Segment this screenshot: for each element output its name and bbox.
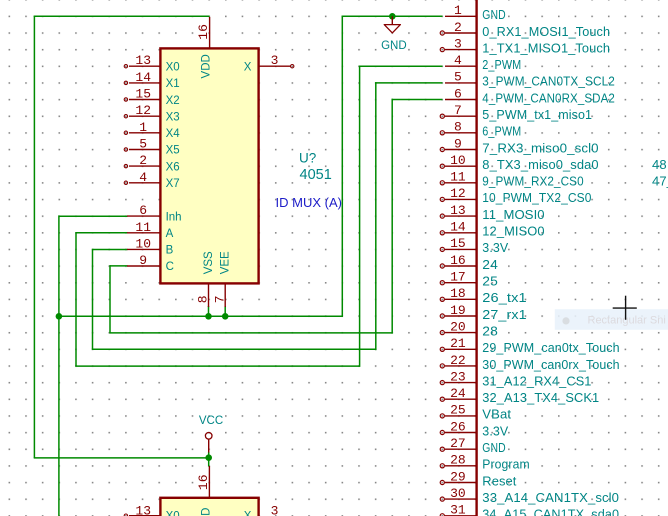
svg-text:15: 15	[450, 236, 466, 251]
svg-text:3: 3	[271, 503, 279, 516]
svg-text:28: 28	[450, 453, 466, 468]
connector pin 13 (11_MOSI0)	[440, 203, 545, 222]
svg-text:14: 14	[135, 70, 151, 85]
wire GND net: vertical continuing to bottom edge	[58, 316, 60, 516]
wire VCC net: left vertical	[33, 16, 35, 458]
svg-text:VEE: VEE	[220, 251, 232, 274]
text label ID MUX (A)	[276, 195, 342, 210]
pin 3 (X) of U? right side	[244, 53, 294, 74]
svg-text:29: 29	[450, 469, 466, 484]
connector pin 11 (9_PWM_RX2_CS0)	[440, 170, 584, 189]
svg-text:X1: X1	[166, 78, 180, 90]
connector pin 6 (4_PWM_CAN0RX_SDA2)	[445, 86, 615, 105]
svg-text:5_PWM_tx1_miso1: 5_PWM_tx1_miso1	[482, 107, 592, 122]
connector pin 21 (29_PWM_can0tx_Touch)	[440, 336, 619, 355]
pin 4 (X7) of U? left side	[124, 170, 179, 190]
svg-text:32_A13_TX4_SCK1: 32_A13_TX4_SCK1	[482, 390, 599, 405]
wire net A: vertical x=76	[75, 232, 77, 366]
svg-text:4051: 4051	[300, 167, 332, 183]
svg-text:ID MUX (A): ID MUX (A)	[276, 195, 342, 210]
IC body U? 4051 (B), partially visible at bottom	[160, 498, 258, 516]
svg-text:1_TX1_MISO1_Touch: 1_TX1_MISO1_Touch	[482, 40, 610, 55]
wire net B: horizontal y=349	[92, 348, 376, 350]
svg-text:33_A14_CAN1TX_scl0: 33_A14_CAN1TX_scl0	[482, 490, 619, 505]
connector pin 23 (31_A12_RX4_CS1)	[440, 369, 591, 388]
svg-text:11: 11	[135, 220, 151, 235]
svg-text:31: 31	[450, 503, 466, 516]
connector pin 2 (0_RX1_MOSI1_Touch)	[440, 20, 610, 39]
wire VCC net: short vertical junction to U? (B) pin 16	[208, 452, 210, 467]
svg-text:U?: U?	[299, 150, 316, 165]
svg-text:7: 7	[454, 103, 462, 118]
svg-text:29_PWM_can0tx_Touch: 29_PWM_can0tx_Touch	[482, 340, 619, 355]
connector pin 22 (30_PWM_can0rx_Touch)	[440, 353, 619, 372]
svg-text:X0: X0	[166, 510, 180, 516]
wire net B: horizontal to connector pin 5	[375, 82, 442, 84]
svg-text:26_tx1: 26_tx1	[482, 290, 526, 305]
wire net B: vertical x=92.5	[92, 249, 94, 349]
connector pin 12 (10_PWM_TX2_CS0)	[440, 186, 591, 205]
wire net A: horizontal to connector pin 4	[359, 65, 443, 67]
svg-text:11_MOSI0: 11_MOSI0	[482, 207, 544, 222]
svg-text:9: 9	[139, 253, 147, 268]
svg-text:12: 12	[450, 186, 466, 201]
pin 16 (VDD) of U? (B)	[196, 466, 213, 516]
connector pin 19 (27_rx1)	[440, 303, 527, 322]
svg-text:20: 20	[450, 319, 466, 334]
wire net C: from U? pin C to left vertical	[110, 265, 128, 267]
svg-text:6: 6	[139, 203, 147, 218]
connector pin 20 (28)	[440, 319, 498, 338]
svg-text:7: 7	[212, 295, 227, 303]
connector pin 29 (Reset)	[440, 469, 517, 488]
svg-text:31_A12_RX4_CS1: 31_A12_RX4_CS1	[482, 373, 591, 388]
svg-text:13: 13	[135, 504, 151, 516]
pin 10 (B) of U? left side	[127, 236, 174, 256]
pin 7 (VEE) of U? bottom side	[212, 251, 231, 307]
svg-text:3.3V: 3.3V	[482, 423, 508, 438]
svg-text:X7: X7	[166, 178, 180, 190]
svg-text:34_A15_CAN1TX_sda0: 34_A15_CAN1TX_sda0	[482, 507, 619, 516]
wire net A: from U? pin A to left vertical	[76, 232, 128, 234]
pin 3 (X) of U? (B)	[244, 503, 279, 516]
pin 12 (X3) of U? left side	[124, 103, 179, 123]
svg-text:12_MISO0: 12_MISO0	[482, 224, 544, 239]
svg-text:24: 24	[482, 257, 498, 272]
svg-text:Program: Program	[482, 457, 529, 472]
svg-text:9_PWM_RX2_CS0: 9_PWM_RX2_CS0	[482, 174, 583, 189]
connector pin 17 (25)	[440, 270, 498, 289]
svg-text:Inh: Inh	[166, 211, 182, 223]
svg-text:X3: X3	[166, 111, 180, 123]
svg-text:7_RX3_miso0_scl0: 7_RX3_miso0_scl0	[482, 140, 598, 155]
connector pin 14 (12_MISO0)	[440, 220, 545, 239]
crosshair cursor	[613, 296, 637, 320]
svg-text:VBat: VBat	[482, 407, 511, 422]
reference designator U?	[299, 150, 316, 165]
wire GND net: vertical from Inh row to bus	[58, 215, 60, 316]
wire GND net: from U? Inh pin to left vertical	[59, 215, 128, 217]
pin 14 (X1) of U? left side	[124, 70, 179, 90]
svg-text:Reset: Reset	[482, 473, 516, 488]
wire VCC net: bottom horizontal to VCC junction	[34, 457, 209, 459]
svg-text:25: 25	[482, 274, 498, 289]
pin 9 (C) of U? left side	[127, 253, 174, 273]
svg-text:X6: X6	[166, 161, 180, 173]
svg-text:10: 10	[450, 153, 466, 168]
junction VSS to GND bus	[205, 313, 212, 320]
svg-text:12: 12	[135, 103, 151, 118]
pin 13 (X0) of U? left side	[124, 53, 179, 73]
wire GND net: VSS pin tail	[208, 306, 210, 316]
svg-text:25: 25	[450, 403, 466, 418]
svg-text:30_PWM_can0rx_Touch: 30_PWM_can0rx_Touch	[482, 357, 619, 372]
wire net C: horizontal to connector pin 6	[392, 99, 443, 101]
svg-text:47_: 47_	[652, 174, 668, 189]
svg-text:10_PWM_TX2_CS0: 10_PWM_TX2_CS0	[482, 190, 591, 205]
junction Inh/GND bus corner	[56, 313, 63, 320]
svg-text:2: 2	[454, 20, 462, 35]
svg-text:10: 10	[135, 236, 151, 251]
connector pin 16 (24)	[440, 253, 498, 272]
svg-text:GND: GND	[381, 40, 407, 52]
wire net C: vertical x=110	[109, 265, 111, 333]
svg-text:3: 3	[454, 36, 462, 51]
svg-text:X5: X5	[166, 145, 180, 157]
svg-text:B: B	[166, 245, 174, 257]
pin 11 (A) of U? left side	[127, 220, 174, 240]
connector pin 10 (8_TX3_miso0_sda0)	[440, 153, 599, 172]
svg-text:16: 16	[196, 24, 211, 40]
svg-text:3.3V: 3.3V	[482, 240, 508, 255]
svg-text:9: 9	[454, 136, 462, 151]
connector pin 31 (34_A15_CAN1TX_sda0)	[440, 503, 619, 516]
wire net B: vertical x=375.8 up to pin 5 row	[375, 82, 377, 350]
svg-text:VSS: VSS	[203, 251, 215, 274]
wire net B: from U? pin B to left vertical	[93, 249, 128, 251]
connector pin 9 (7_RX3_miso0_scl0)	[440, 136, 598, 155]
pin 5 (X5) of U? left side	[124, 137, 179, 157]
svg-text:A: A	[166, 228, 174, 240]
wire GND net: top horizontal from corner to connector pin 1	[342, 15, 443, 17]
svg-text:Rectangular Sni: Rectangular Sni	[588, 315, 666, 327]
connector pin 27 (GND)	[440, 436, 506, 455]
svg-text:16: 16	[196, 474, 211, 490]
svg-text:19: 19	[450, 303, 466, 318]
svg-text:5: 5	[139, 137, 147, 152]
wire net C: horizontal y=333	[109, 332, 392, 334]
connector pin 25 (VBat)	[440, 403, 511, 422]
op-amp-style IC body U? 4051 U? (A)	[160, 48, 258, 283]
svg-text:13: 13	[135, 53, 151, 68]
svg-text:6: 6	[454, 86, 462, 101]
svg-text:VDD: VDD	[200, 54, 212, 78]
connector pin 8 (6_PWM)	[440, 120, 521, 139]
power symbol VCC	[199, 415, 223, 453]
pin name 48 (off-screen connector)	[652, 157, 667, 172]
svg-text:X4: X4	[166, 128, 181, 140]
svg-text:8: 8	[196, 295, 211, 303]
svg-text:13: 13	[450, 203, 466, 218]
connector pin 1 (GND)	[445, 3, 506, 22]
wire GND net: VEE pin tail	[224, 306, 226, 316]
connector pin 24 (32_A13_TX4_SCK1)	[440, 386, 599, 405]
svg-text:27_rx1: 27_rx1	[482, 307, 526, 322]
connector pin 26 (3.3V)	[440, 419, 508, 438]
pin 1 (X4) of U? left side	[124, 120, 180, 140]
svg-text:VCC: VCC	[199, 415, 223, 427]
svg-text:26: 26	[450, 419, 466, 434]
svg-text:4_PWM_CAN0RX_SDA2: 4_PWM_CAN0RX_SDA2	[482, 90, 615, 105]
wire GND net: long horizontal bus y=316	[59, 315, 343, 317]
svg-text:VDD: VDD	[200, 508, 212, 516]
wire net A: vertical x=359.6 up to pin 4 row	[359, 66, 361, 367]
pin 8 (VSS) of U? bottom side	[196, 251, 215, 307]
svg-text:GND: GND	[482, 7, 505, 22]
svg-text:1: 1	[139, 120, 147, 135]
svg-text:16: 16	[450, 253, 466, 268]
svg-text:2: 2	[139, 153, 147, 168]
svg-text:11: 11	[450, 170, 466, 185]
svg-text:28: 28	[482, 323, 498, 338]
connector body edge (vertical line)	[475, 0, 477, 516]
wire net A: horizontal y=366	[75, 365, 359, 367]
svg-text:0_RX1_MOSI1_Touch: 0_RX1_MOSI1_Touch	[482, 24, 610, 39]
pin 6 (Inh) of U? left side	[127, 203, 182, 223]
pin 15 (X2) of U? left side	[124, 87, 179, 107]
svg-text:15: 15	[135, 87, 151, 102]
svg-text:X0: X0	[166, 62, 180, 74]
svg-text:4: 4	[454, 53, 462, 68]
svg-text:18: 18	[450, 286, 466, 301]
wire GND net: vertical at x=342	[341, 16, 343, 317]
svg-text:22: 22	[450, 353, 466, 368]
connector pin 7 (5_PWM_tx1_miso1)	[440, 103, 592, 122]
wire VCC net: horizontal from corner to U? pin 16 (VDD)	[34, 15, 210, 17]
connector pin 15 (3.3V)	[440, 236, 508, 255]
svg-text:GND: GND	[482, 440, 505, 455]
connector pin 5 (3_PWM_CAN0TX_SCL2)	[445, 70, 615, 89]
connector pin 28 (Program)	[440, 453, 530, 472]
svg-text:17: 17	[450, 270, 466, 285]
connector pin 30 (33_A14_CAN1TX_scl0)	[440, 486, 619, 505]
svg-text:5: 5	[454, 70, 462, 85]
svg-text:48: 48	[652, 157, 667, 172]
junction VCC tap	[205, 454, 212, 461]
pin name 47 (off-screen connector)	[652, 174, 668, 189]
svg-text:27: 27	[450, 436, 466, 451]
svg-text:14: 14	[450, 220, 466, 235]
svg-text:1: 1	[454, 3, 462, 18]
value 4051	[300, 167, 332, 183]
svg-text:24: 24	[450, 386, 466, 401]
svg-text:6_PWM: 6_PWM	[482, 124, 521, 139]
svg-text:21: 21	[450, 336, 466, 351]
svg-text:2_PWM: 2_PWM	[482, 57, 521, 72]
svg-text:4: 4	[139, 170, 147, 185]
junction VEE to GND bus	[222, 313, 229, 320]
power symbol GND (top)	[381, 16, 407, 52]
connector pin 3 (1_TX1_MISO1_Touch)	[440, 36, 610, 55]
svg-text:8: 8	[454, 120, 462, 135]
connector pin 18 (26_tx1)	[440, 286, 527, 305]
svg-text:C: C	[166, 261, 174, 273]
svg-text:X2: X2	[166, 95, 180, 107]
wire net C: vertical x=392.2 up to pin 6 row	[391, 99, 393, 334]
svg-text:23: 23	[450, 369, 466, 384]
pin 13 (X0) of U? (B)	[124, 504, 179, 516]
junction GND symbol tap on top wire	[389, 13, 396, 20]
svg-text:X: X	[244, 62, 252, 74]
connector pin 4 (2_PWM)	[445, 53, 521, 72]
tooltip overlay "Rectangular Snip"	[555, 309, 668, 330]
svg-text:3: 3	[271, 53, 279, 68]
pin 16 (VDD) of U? top side	[196, 17, 213, 79]
pin 2 (X6) of U? left side	[124, 153, 179, 173]
svg-text:8_TX3_miso0_sda0: 8_TX3_miso0_sda0	[482, 157, 598, 172]
svg-text:3_PWM_CAN0TX_SCL2: 3_PWM_CAN0TX_SCL2	[482, 74, 615, 89]
svg-text:30: 30	[450, 486, 466, 501]
svg-text:X: X	[244, 510, 252, 516]
